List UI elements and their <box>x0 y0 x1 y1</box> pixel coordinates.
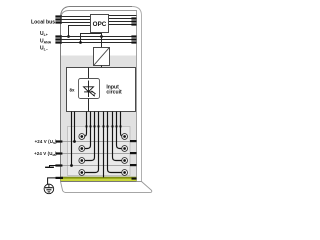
local bus left stub 3 <box>55 21 62 23</box>
+24V UM left stub <box>55 152 62 154</box>
terminal 1.4 <box>79 170 85 176</box>
DC/DC converter diagonal <box>94 48 109 65</box>
svg-text:UANA: UANA <box>40 38 52 44</box>
module outer right edge <box>132 7 142 182</box>
local bus line left 1 <box>61 16 92 18</box>
wire DC/DC to input circuit <box>101 66 103 68</box>
input wire 2 <box>82 112 91 149</box>
input circuit box <box>67 68 136 112</box>
input wire 4 <box>82 112 99 173</box>
module bottom edge <box>61 181 137 183</box>
UL- rail <box>61 42 137 44</box>
module outer outline <box>61 7 133 182</box>
UANA rail <box>61 39 137 41</box>
supply rail +24V UM <box>62 153 137 155</box>
local bus line right 3 <box>109 21 137 23</box>
svg-text:circuit: circuit <box>106 90 122 96</box>
junction dot aux wire rail 1 <box>73 140 76 143</box>
aux wire to rail 1 <box>74 112 76 142</box>
local bus line right 4 <box>109 24 137 26</box>
module inner edge (front face top and right) <box>61 11 137 182</box>
module foot (bottom face) <box>61 182 152 193</box>
local bus line right 2 <box>109 18 137 20</box>
UL- right stub <box>131 41 136 43</box>
svg-text:UL−: UL− <box>40 46 48 52</box>
FE green rail bar upper (olive) <box>61 177 137 179</box>
terminal 1.1 <box>79 134 85 140</box>
UL+ rail <box>61 36 137 38</box>
local bus right stub 2 <box>131 20 136 22</box>
wire into optocoupler <box>88 68 90 79</box>
FE wire to earth symbol <box>48 178 61 185</box>
local bus line left 2 <box>61 19 92 21</box>
local bus left stub 2 <box>55 18 62 20</box>
+24V US left stub <box>55 140 62 142</box>
connector right stub 2 <box>130 152 137 154</box>
FE green rail right black cap <box>132 178 137 180</box>
local bus return wire into OPC <box>69 26 92 37</box>
local bus line right 1 <box>109 15 137 17</box>
junction dot return wire on UL+ rail <box>67 35 70 38</box>
input wire 7 <box>113 112 125 161</box>
junction dot aux wire rail 3 <box>70 164 73 167</box>
local bus line left 3 <box>61 22 92 24</box>
branch wire OPC to UL- rail <box>81 34 102 43</box>
terminal 2.4 <box>122 170 128 176</box>
svg-text:Local bus: Local bus <box>31 20 55 26</box>
terminal connector block <box>68 127 131 176</box>
terminal 2.3 <box>122 158 128 164</box>
supply rail +24V US <box>62 141 137 143</box>
GND left stub <box>55 164 62 166</box>
module front face upper (white) <box>61 11 137 56</box>
input wire 1 <box>82 112 87 137</box>
optocoupler arrowhead <box>93 94 95 97</box>
UL- left stub <box>55 41 62 43</box>
UL+ right stub <box>131 35 136 37</box>
wire OPC to DC/DC converter <box>101 33 103 48</box>
svg-text:+24 V (US): +24 V (US) <box>35 139 58 145</box>
GND wire <box>50 166 63 168</box>
svg-text:OPC: OPC <box>93 21 107 28</box>
FE green rail top edge <box>61 176 137 178</box>
connector right stub 1 <box>130 140 137 142</box>
UL+ left stub <box>55 35 62 37</box>
FE green rail bar lower (bright) <box>61 179 137 181</box>
input wire 5 <box>121 112 125 137</box>
supply rail GND <box>62 165 137 167</box>
optocoupler cell box <box>79 79 100 99</box>
junction dots on input wires <box>86 125 122 127</box>
terminal 2.1 <box>122 134 128 140</box>
terminal 2.2 <box>122 146 128 152</box>
svg-text:UL+: UL+ <box>40 31 48 37</box>
FE wire center <box>103 112 105 178</box>
UANA right stub <box>131 38 136 40</box>
input wire 6 <box>117 112 125 149</box>
FE left stub <box>56 177 64 179</box>
functional earth symbol <box>44 184 54 194</box>
DC/DC converter box <box>94 48 110 66</box>
junction dot UL+ feed to OPC/converter <box>100 35 103 38</box>
svg-text:+24 V (UM): +24 V (UM) <box>34 151 57 157</box>
optocoupler LED symbol <box>84 81 96 98</box>
ground symbol <box>45 166 54 168</box>
terminal 1.2 <box>79 146 85 152</box>
terminal 1.3 <box>79 158 85 164</box>
local bus right stub 3 <box>131 23 136 25</box>
local bus left stub 1 <box>55 15 62 17</box>
input wire 3 <box>82 112 95 161</box>
input wire 8 <box>108 112 125 173</box>
junction dot on UL- rail <box>79 41 82 44</box>
protocol chip OPC box <box>91 15 109 33</box>
wire below optocoupler <box>88 99 90 112</box>
local bus right stub 1 <box>131 17 136 19</box>
UANA left stub <box>55 38 62 40</box>
connector right stub 3 <box>130 164 137 166</box>
module front face lower (gray panel) <box>61 56 137 182</box>
svg-text:8x: 8x <box>69 87 75 92</box>
aux wire to rail 3 <box>71 112 73 166</box>
